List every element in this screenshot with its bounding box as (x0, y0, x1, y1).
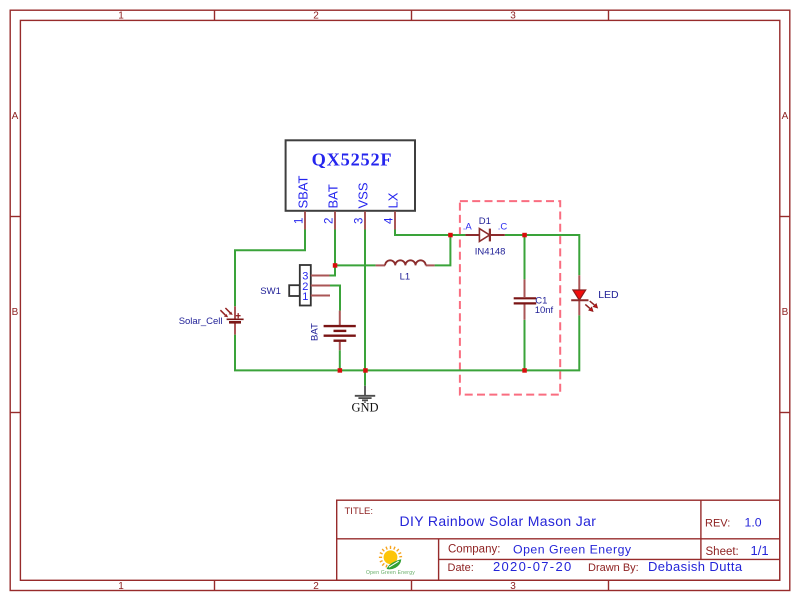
svg-text:10nf: 10nf (535, 305, 554, 316)
svg-text:Open Green Energy: Open Green Energy (513, 542, 632, 556)
svg-text:IN4148: IN4148 (475, 246, 506, 257)
svg-text:Date:: Date: (448, 562, 474, 574)
svg-text:Solar_Cell: Solar_Cell (179, 316, 223, 327)
svg-text:3: 3 (354, 218, 366, 224)
svg-text:1: 1 (118, 581, 124, 592)
svg-text:3: 3 (510, 581, 516, 592)
svg-text:Open Green Energy: Open Green Energy (366, 570, 415, 576)
svg-text:Debasish Dutta: Debasish Dutta (648, 559, 743, 574)
svg-text:VSS: VSS (356, 182, 371, 208)
svg-text:QX5252F: QX5252F (312, 150, 393, 170)
svg-text:B: B (12, 307, 19, 318)
svg-text:REV:: REV: (705, 517, 730, 529)
svg-text:.A: .A (463, 221, 473, 232)
svg-text:A: A (782, 111, 789, 122)
svg-text:.C: .C (498, 221, 508, 232)
svg-text:Drawn By:: Drawn By: (588, 562, 639, 574)
svg-text:1: 1 (118, 11, 124, 22)
svg-text:A: A (12, 111, 19, 122)
svg-text:GND: GND (351, 401, 378, 415)
svg-text:Company:: Company: (448, 544, 500, 556)
svg-text:3: 3 (510, 11, 516, 22)
svg-text:L1: L1 (400, 271, 411, 282)
svg-text:LX: LX (386, 192, 401, 208)
svg-text:DIY Rainbow Solar Mason Jar: DIY Rainbow Solar Mason Jar (400, 513, 597, 529)
svg-text:D1: D1 (479, 216, 491, 227)
svg-text:SBAT: SBAT (296, 175, 311, 208)
svg-text:2: 2 (313, 581, 319, 592)
svg-text:1.0: 1.0 (745, 515, 762, 529)
svg-text:1/1: 1/1 (751, 543, 769, 558)
svg-text:SW1: SW1 (260, 286, 281, 297)
svg-text:1: 1 (294, 218, 306, 224)
svg-text:2: 2 (324, 218, 336, 224)
svg-text:BAT: BAT (326, 184, 341, 208)
svg-text:1: 1 (302, 291, 308, 303)
svg-text:2020-07-20: 2020-07-20 (493, 559, 573, 574)
svg-text:LED: LED (598, 289, 619, 301)
svg-text:TITLE:: TITLE: (345, 506, 374, 517)
svg-text:4: 4 (384, 217, 396, 224)
svg-text:B: B (782, 307, 789, 318)
svg-text:BAT: BAT (310, 323, 321, 341)
svg-text:2: 2 (313, 11, 319, 22)
svg-text:Sheet:: Sheet: (706, 546, 739, 558)
